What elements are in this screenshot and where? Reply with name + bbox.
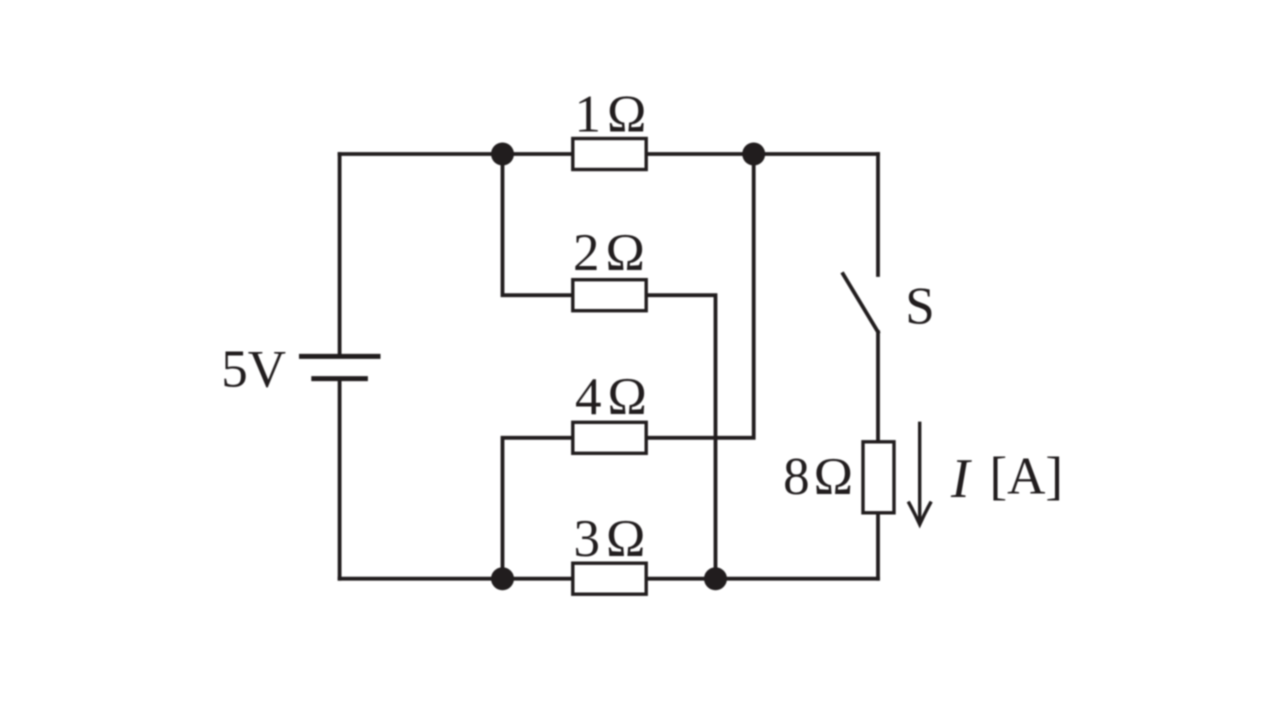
svg-text:3Ω: 3Ω xyxy=(574,510,652,568)
wire top horizontal xyxy=(340,152,878,156)
svg-text:2Ω: 2Ω xyxy=(573,224,651,282)
wire switch to 8ohm resistor xyxy=(876,332,880,442)
resistor R1 1ohm body xyxy=(573,139,646,170)
wire from node B down to 4ohm resistor right xyxy=(646,154,754,438)
svg-text:1Ω: 1Ω xyxy=(575,86,653,144)
battery B1 negative plate xyxy=(314,376,366,381)
switch S blade xyxy=(843,274,878,332)
resistor R5 8ohm body xyxy=(863,442,894,513)
wire 8ohm resistor to bottom xyxy=(876,513,880,579)
node D junction dot xyxy=(704,567,727,590)
resistor R3 3ohm body xyxy=(573,563,646,594)
resistor R2 2ohm body xyxy=(573,280,646,311)
node B junction dot xyxy=(742,143,765,166)
wire left vertical upper (battery + terminal) xyxy=(338,154,342,354)
current arrow I shaft xyxy=(918,423,921,523)
wire left vertical lower (battery - terminal) xyxy=(338,381,342,579)
resistor R4 4ohm body xyxy=(573,422,646,453)
svg-text:8Ω: 8Ω xyxy=(783,448,857,506)
wire bottom horizontal xyxy=(340,577,878,581)
svg-text:I: I xyxy=(950,448,972,510)
current arrow I head xyxy=(909,503,930,524)
battery B1 positive plate xyxy=(302,354,379,359)
svg-text:[A]: [A] xyxy=(990,448,1064,506)
wire from node A down to 2ohm branch xyxy=(503,154,573,295)
wire from 2ohm resistor right to node D column xyxy=(646,295,715,579)
node A junction dot xyxy=(491,143,514,166)
wire right vertical upper to switch xyxy=(876,154,880,275)
node C junction dot xyxy=(491,567,514,590)
svg-text:S: S xyxy=(905,278,934,336)
svg-text:4Ω: 4Ω xyxy=(575,368,653,426)
svg-text:5V: 5V xyxy=(221,341,286,399)
wire from 4ohm resistor left down to node C xyxy=(503,438,573,579)
